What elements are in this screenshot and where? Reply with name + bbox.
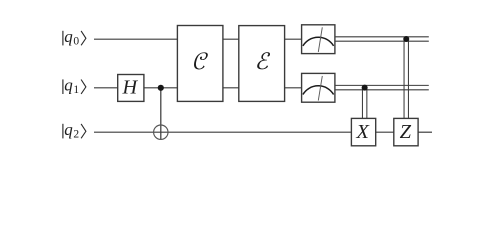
classical double wire from meter q0 [335,36,429,38]
gate H on q1 [118,75,144,102]
svg-text:q: q [64,27,73,46]
wire q0: gate E to meter [285,38,302,40]
gate X on q2 [351,118,375,145]
svg-text:2: 2 [73,129,79,141]
wire q1: gate C to gate E [223,87,239,89]
wire q1: gate H to gate C [144,87,178,89]
svg-text:0: 0 [73,36,79,48]
svg-text:q: q [64,75,73,94]
svg-text:1: 1 [73,84,79,96]
wire q2: gate X to gate Z [376,131,394,133]
node q2 label ket [63,120,86,141]
gate Z on q2 [394,118,418,145]
gate E (channel) spanning q0 q1 [239,26,285,102]
meter on q0 [302,25,335,54]
classical vertical double wire q0 to gate Z [403,39,405,118]
wire q0: gate C to gate E [223,38,239,40]
wire: CNOT vertical control line q1 to q2 [160,88,162,140]
node q1 label ket [63,75,86,96]
wire q2: gate Z to end [418,131,432,133]
svg-text:Z: Z [400,121,412,143]
junction dot on q1 classical wire [362,85,368,91]
meter on q1 [302,73,335,102]
CNOT target (oplus) on q2 [154,125,168,139]
svg-text:q: q [64,120,73,139]
svg-text:H: H [122,77,139,99]
wire q0: start to gate C [94,38,177,40]
classical vertical double wire q1 to gate X [361,88,363,119]
node q0 label ket [63,27,86,48]
wire q2: start to gate X [94,131,351,133]
wire q1: start to gate H [94,87,118,89]
junction dot on q0 classical wire [403,36,409,42]
classical double wire from meter q1 [335,84,429,86]
wire q1: gate E to meter [285,87,302,89]
gate C (channel) spanning q0 q1 [177,26,223,102]
control dot on q1 [158,85,164,91]
svg-text:X: X [355,121,370,143]
